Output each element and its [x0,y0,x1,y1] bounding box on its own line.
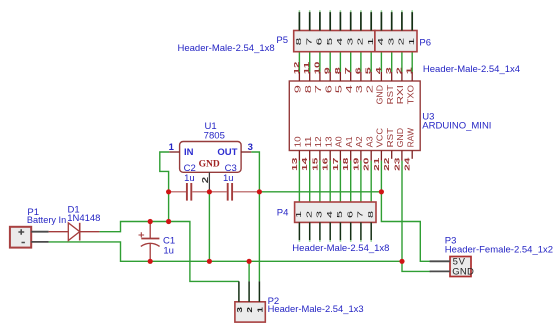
svg-text:1: 1 [169,142,175,153]
C3 right lead [233,191,259,193]
pin tip [319,10,321,12]
svg-text:VCC: VCC [375,128,385,148]
svg-text:1: 1 [255,307,264,313]
svg-text:4: 4 [376,38,385,46]
wire header-top col6 to U3 [350,52,352,72]
U3 bottom pin leg 15 [319,151,321,161]
pin tip [319,240,321,242]
svg-text:7: 7 [313,85,323,94]
pin tip [360,10,362,12]
junction C1 minus / GND rail [148,259,153,264]
U3 top pin leg 4 [380,72,382,81]
svg-text:P4: P4 [277,208,289,219]
U3 top pin leg 9 [329,72,331,81]
svg-text:1: 1 [366,38,375,46]
svg-text:4: 4 [344,85,354,94]
svg-text:3: 3 [386,38,395,46]
U3 top pin leg 1 [411,72,413,81]
IC U3 ARDUINO_MINI body [289,81,420,151]
svg-text:18: 18 [341,158,350,171]
U3 top pin leg 3 [391,72,393,81]
P4 pin leg 2 [309,222,311,240]
pin leg top header col3 [319,12,321,31]
svg-text:9: 9 [323,67,332,74]
junction P2 pin2 / GND rail [247,259,252,264]
wire header-top col4 to U3 [329,52,331,72]
svg-text:3: 3 [354,85,364,94]
svg-text:1: 1 [294,211,303,218]
svg-text:9: 9 [293,85,303,94]
svg-text:8: 8 [303,85,313,94]
P1 plus mark [18,229,24,234]
U3 bottom pin leg 14 [309,151,311,161]
pin tip [309,10,311,12]
svg-text:13: 13 [323,136,333,147]
P2 pin leg 3 [238,281,240,301]
U1 pin 3 leg [241,151,251,153]
svg-text:6: 6 [315,38,324,46]
P1 pin leg + [31,231,48,233]
svg-text:Battery In: Battery In [27,215,66,226]
pin tip [380,10,382,12]
U3 top pin leg 6 [360,72,362,81]
svg-text:15: 15 [310,158,319,171]
wire diode cathode to P2 pin3 [99,222,239,282]
wire header-top col10 to U3 [391,52,393,72]
wire U3 pin19 to P4 pin7 [360,161,362,202]
D1 cathode lead [80,231,100,233]
junction VIN / C2 [166,189,171,194]
svg-text:3: 3 [248,142,253,153]
junction U3 GND / GND rail [399,259,404,264]
U3 bottom pin leg 21 [380,151,382,161]
junction 5V / C3 / U1 OUT [257,189,262,194]
svg-text:TXO: TXO [405,85,415,105]
P4 pin leg 3 [319,222,321,240]
wire U3 pin17 to P4 pin5 [339,161,341,202]
pin leg top header col10 [391,12,393,31]
svg-text:5: 5 [334,85,344,94]
C2-C3 lead [192,191,227,193]
wire GND to P3 GND [402,261,431,271]
svg-text:7: 7 [304,38,313,46]
pin leg top header col12 [411,12,413,31]
wire U3 VCC pin21 to P3 5V [381,161,430,262]
svg-text:10: 10 [312,62,321,75]
wire U1 OUT down [251,152,259,192]
svg-text:Header-Male-2.54_1x8: Header-Male-2.54_1x8 [178,43,275,54]
P3 pin leg 5V [430,260,450,262]
P4 pin leg 5 [339,222,341,240]
P4 pin leg 1 [298,222,300,240]
svg-text:A3: A3 [364,136,374,147]
pin tip [370,10,372,12]
U3 bottom pin leg 22 (n.c.) [391,151,393,159]
wire U3 pin16 to P4 pin4 [329,161,331,202]
U3 top pin leg 2 [401,72,403,81]
svg-text:Header-Male-2.54_1x8: Header-Male-2.54_1x8 [292,243,389,254]
U3 bottom pin leg 20 [370,151,372,161]
pin tip [329,240,331,242]
U1 pin 1 leg [169,151,179,153]
pin leg top header col9 [380,12,382,31]
pin tip [298,10,300,12]
wire U3 GND pin23 down [401,161,403,262]
svg-text:1: 1 [405,67,414,74]
svg-text:14: 14 [300,156,309,171]
svg-text:5: 5 [335,211,344,218]
svg-text:ARDUINO_MINI: ARDUINO_MINI [422,121,491,132]
svg-text:21: 21 [372,158,381,171]
wire U3 pin18 to P4 pin6 [350,161,352,202]
svg-text:Header-Male-2.54_1x3: Header-Male-2.54_1x3 [268,304,364,315]
svg-text:P6: P6 [419,37,431,48]
svg-text:5: 5 [325,38,334,46]
svg-text:3: 3 [384,67,393,74]
wire U3 pin15 to P4 pin3 [319,161,321,202]
C1 bottom lead [149,244,151,261]
pin leg top header col4 [329,12,331,31]
U3 bottom pin leg 16 [329,151,331,161]
svg-text:11: 11 [303,136,313,147]
svg-text:3: 3 [345,38,354,46]
svg-text:1N4148: 1N4148 [67,213,100,224]
wire header-top col1 to U3 [298,52,300,72]
svg-text:19: 19 [351,158,360,171]
svg-text:4: 4 [325,211,334,218]
C2 left lead [169,191,186,193]
svg-text:RST: RST [385,128,395,148]
U3 bottom pin leg 18 [350,151,352,161]
D1 anode lead [49,231,69,233]
capacitor C2 plate left [186,183,188,201]
P4 pin leg 4 [329,222,331,240]
wire 5V down to P2 pin1 [258,192,260,282]
U3 bottom pin leg 23 [401,151,403,161]
svg-text:P5: P5 [276,35,288,46]
header P6 body [375,31,417,52]
svg-text:7: 7 [356,211,365,218]
svg-text:22: 22 [382,158,391,171]
U3 top pin leg 11 [309,72,311,81]
svg-text:2: 2 [304,211,313,218]
svg-text:A1: A1 [344,136,354,147]
U3 top pin leg 10 [319,72,321,81]
svg-text:3: 3 [315,211,324,218]
svg-text:6: 6 [345,211,354,218]
header P2 body [235,302,265,322]
junction C1 plus [148,219,153,224]
U3 bottom pin leg 13 [298,151,300,161]
svg-text:GND: GND [452,267,474,278]
svg-text:1u: 1u [163,246,174,257]
wire header-top col2 to U3 [309,52,311,72]
wire header-top col11 to U3 [401,52,403,72]
capacitor C1 curved plate [141,243,160,246]
junction GND center / C2 C3 [207,189,212,194]
svg-text:20: 20 [362,158,371,171]
capacitor C3 plate left [227,183,229,201]
pin tip [370,240,372,242]
D1 cathode bar [79,223,81,241]
U3 top pin leg 5 [370,72,372,81]
pin tip [401,10,403,12]
wire header-top col8 to U3 [370,52,372,72]
svg-text:2: 2 [364,85,374,94]
U3 top pin leg 8 [339,72,341,81]
P1 minus mark [22,242,25,244]
U3 bottom pin leg 17 [339,151,341,161]
svg-text:2: 2 [397,38,406,46]
pin tip [360,240,362,242]
P4 pin leg 8 [370,222,372,240]
svg-text:A2: A2 [354,136,364,147]
wire U3 pin20 to P4 pin8 [370,161,372,202]
wire U1 GND down to GND rail [208,192,210,261]
pin tip [298,240,300,242]
svg-text:23: 23 [392,158,401,171]
C1 plus mark [139,232,145,237]
pin tip [339,10,341,12]
svg-text:RAW: RAW [405,128,415,148]
pin tip [350,10,352,12]
svg-text:12: 12 [313,136,323,147]
pin leg top header col8 [370,12,372,31]
svg-text:7: 7 [343,67,352,74]
svg-text:8: 8 [366,211,375,218]
svg-text:GND: GND [375,85,385,104]
capacitor C2 plate right [190,183,192,201]
wire GND to P2 pin2 [248,261,250,281]
svg-text:16: 16 [321,158,330,171]
svg-text:2: 2 [356,38,365,46]
C1 top lead [149,222,151,239]
svg-text:GND: GND [199,160,220,170]
junction U1 GND / GND rail [207,259,212,264]
pin leg top header col1 [298,12,300,31]
svg-text:10: 10 [293,136,303,147]
wire header-top col3 to U3 [319,52,321,72]
svg-text:RST: RST [385,85,395,104]
svg-text:2: 2 [200,176,210,183]
U3 top pin leg 12 [298,72,300,81]
P4 pin leg 7 [360,222,362,240]
pin leg top header col2 [309,12,311,31]
svg-text:IN: IN [184,147,194,158]
pin tip [391,10,393,12]
wire header-top col7 to U3 [360,52,362,72]
capacitor C3 plate right [231,183,233,201]
wire 5V rail [259,191,381,193]
svg-text:8: 8 [294,38,303,46]
svg-text:4: 4 [335,38,344,46]
pin tip [329,10,331,12]
junction VIN feed [166,219,171,224]
pin leg top header col6 [350,12,352,31]
svg-text:7805: 7805 [204,130,225,141]
svg-text:Header-Male-2.54_1x4: Header-Male-2.54_1x4 [423,64,520,75]
pin tip [350,240,352,242]
header P3 body [450,257,471,277]
svg-text:13: 13 [290,158,299,171]
svg-text:1u: 1u [223,173,234,184]
wire header-top col5 to U3 [339,52,341,72]
U1 pin 2 leg (GND) [208,172,210,192]
U3 bottom pin leg 19 [360,151,362,161]
diode D1 triangle [68,223,79,241]
P1 pin leg - [31,241,48,243]
wire VIN feed down [168,192,170,222]
svg-text:2: 2 [245,307,254,313]
svg-text:1: 1 [407,38,416,46]
svg-text:2: 2 [394,67,403,74]
wire U1 IN jog down [160,152,170,192]
P3 pin leg GND [430,270,450,272]
C1 straight plate [141,238,159,240]
wire U3 pin13 to P4 pin1 [298,161,300,202]
svg-text:Header-Female-2.54_1x2: Header-Female-2.54_1x2 [445,245,553,256]
wire U3 pin14 to P4 pin2 [309,161,311,202]
pin leg top header col11 [401,12,403,31]
P2 pin leg 1 [258,281,260,301]
P2 pin leg 2 [248,281,250,301]
P4 pin leg 6 [350,222,352,240]
junction 5V / U3 VCC [379,189,384,194]
pin leg top header col5 [339,12,341,31]
U3 top pin leg 7 [350,72,352,81]
svg-text:17: 17 [331,158,340,171]
svg-text:A0: A0 [334,136,344,147]
svg-text:8: 8 [333,67,342,74]
svg-text:6: 6 [323,85,333,94]
pin tip [309,240,311,242]
svg-text:6: 6 [353,67,362,74]
pin leg top header col7 [360,12,362,31]
svg-text:12: 12 [292,62,301,75]
wire header-top col9 to U3 [380,52,382,72]
connector P1 Battery In body [10,227,31,248]
pin tip [339,240,341,242]
svg-text:GND: GND [395,128,405,148]
svg-text:11: 11 [302,62,311,75]
svg-text:24: 24 [403,156,412,171]
svg-text:OUT: OUT [217,147,237,158]
svg-text:RXI: RXI [395,85,405,104]
header P5 body [294,31,375,52]
U3 bottom pin leg 24 (n.c.) [411,151,413,159]
svg-text:5: 5 [364,67,373,74]
wire header-top col12 to U3 [411,52,413,72]
svg-text:1u: 1u [184,173,195,184]
svg-text:3: 3 [235,307,244,313]
header P4 body [295,202,376,222]
wire GND rail from battery minus [49,242,402,261]
regulator U1 7805 body [180,142,242,173]
pin tip [411,10,413,12]
